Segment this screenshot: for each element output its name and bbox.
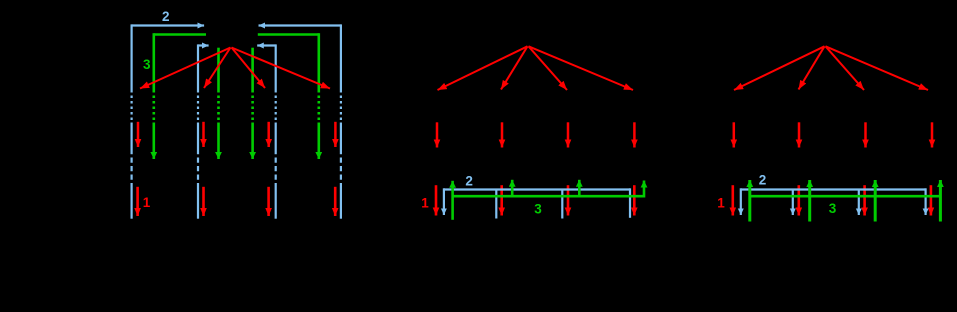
right panel green gather line with tall up arrows (step 3) bbox=[750, 195, 941, 198]
left panel green inner-right arrow bbox=[251, 48, 254, 159]
svg-text:3: 3 bbox=[143, 57, 151, 72]
left panel red bottom arrows (step 1) bbox=[138, 187, 336, 216]
right panel red fan arrows from root bbox=[734, 46, 928, 90]
right panel green tall up arrows bbox=[750, 180, 941, 222]
left panel green inner-left arrow bbox=[217, 48, 220, 159]
middle panel blue release line (step 2) bbox=[444, 188, 630, 218]
left panel green bracket outer-right (step 3) bbox=[258, 33, 319, 159]
svg-text:3: 3 bbox=[829, 201, 837, 216]
right panel blue release line with down arrows (step 2) bbox=[741, 188, 926, 215]
left panel inner-right blue bracket bbox=[257, 44, 276, 218]
svg-text:2: 2 bbox=[162, 9, 170, 24]
right panel red thread arrows bbox=[734, 122, 932, 147]
middle panel red fan arrows from root bbox=[438, 46, 634, 90]
left panel red fan arrows from root bbox=[140, 48, 330, 89]
left panel outer-right blue bracket (step 2) bbox=[259, 24, 341, 218]
svg-text:1: 1 bbox=[717, 196, 725, 211]
middle panel red bottom arrows (step 1) bbox=[436, 185, 634, 215]
middle panel green gather line (step 3) bbox=[453, 180, 644, 220]
left panel green bracket outer-left (step 3) bbox=[154, 33, 206, 159]
middle panel red thread arrows bbox=[437, 122, 634, 147]
left panel outer-left blue bracket (step 2) bbox=[132, 24, 205, 218]
left panel red mid arrows bbox=[138, 122, 335, 147]
svg-text:2: 2 bbox=[759, 172, 767, 187]
svg-text:1: 1 bbox=[421, 195, 429, 210]
right panel red bottom arrows (step 1) bbox=[733, 185, 931, 215]
left panel inner-left blue bracket bbox=[198, 44, 209, 218]
svg-text:2: 2 bbox=[465, 173, 473, 188]
svg-text:1: 1 bbox=[143, 195, 151, 210]
svg-text:3: 3 bbox=[534, 202, 542, 217]
